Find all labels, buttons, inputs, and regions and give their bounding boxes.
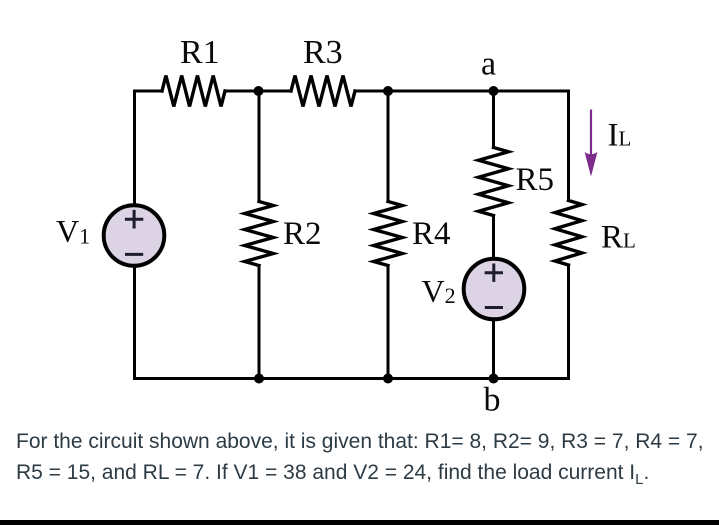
svg-text:R5: R5 bbox=[516, 162, 555, 198]
svg-text:R2: R2 bbox=[283, 216, 322, 252]
svg-text:R3: R3 bbox=[303, 34, 343, 71]
svg-text:V1: V1 bbox=[56, 213, 90, 249]
svg-text:R1: R1 bbox=[180, 34, 220, 71]
svg-text:RL: RL bbox=[601, 220, 636, 256]
svg-text:R4: R4 bbox=[412, 216, 451, 252]
svg-text:V2: V2 bbox=[422, 273, 456, 309]
svg-text:a: a bbox=[481, 46, 496, 83]
svg-text:b: b bbox=[484, 381, 501, 418]
svg-text:IL: IL bbox=[608, 117, 632, 153]
